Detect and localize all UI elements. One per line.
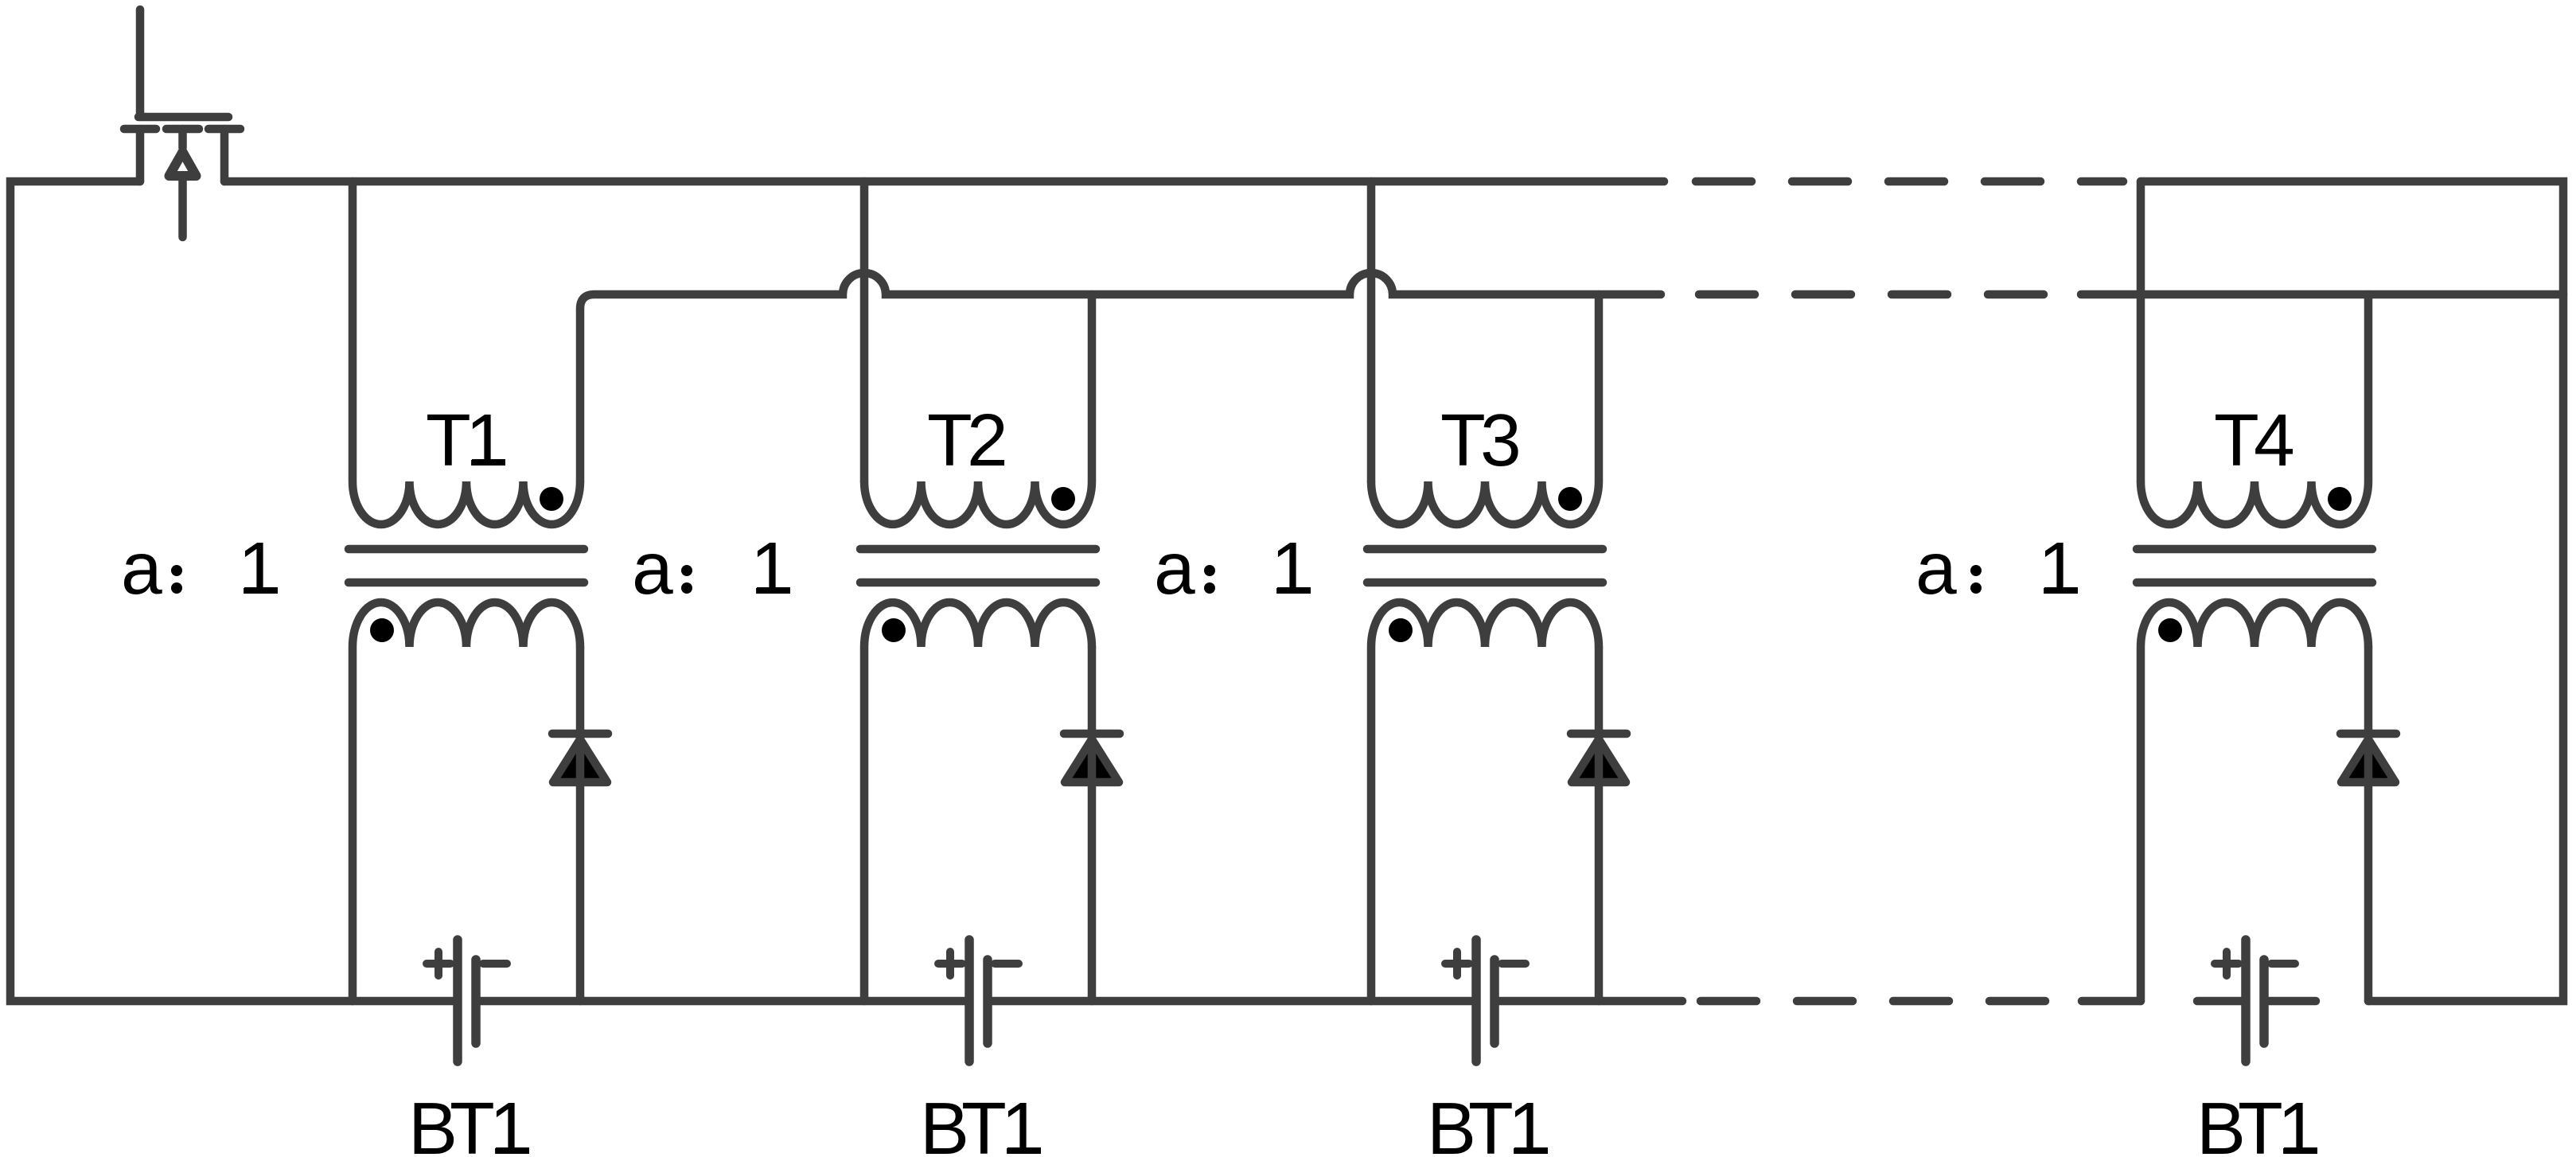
svg-text:T: T	[927, 399, 972, 481]
transformer T3 primary lead from top wire	[1367, 181, 1376, 481]
svg-text:T: T	[1440, 399, 1486, 481]
svg-text:3: 3	[1480, 399, 1522, 481]
svg-text:1: 1	[2038, 527, 2079, 610]
transistor Q1 drain lead	[136, 129, 145, 181]
node dot T2 primary polarity	[1051, 487, 1075, 511]
svg-text:1: 1	[1001, 1087, 1042, 1157]
battery BT1-2 minus sign	[995, 960, 1019, 968]
node dot T1 secondary polarity	[370, 618, 394, 642]
battery BT1-2 positive plate	[965, 940, 974, 1062]
diode D1 cathode bar	[552, 730, 608, 738]
wire top middle segment	[224, 177, 1664, 186]
svg-text:4: 4	[2254, 399, 2295, 481]
label T4	[2214, 399, 2295, 481]
label a:1 for T4	[1915, 527, 2079, 610]
transformer T3 primary winding	[1371, 294, 1599, 524]
svg-text:2: 2	[967, 399, 1008, 481]
wire top right segment, right edge and bottom right corner	[2141, 181, 2563, 1001]
svg-text:T: T	[1468, 1087, 1514, 1157]
battery BT1-3 positive plate	[1471, 940, 1481, 1062]
transformer T3 core	[1367, 549, 1603, 582]
transistor Q1 channel dash 2	[166, 125, 199, 134]
transformer T1 secondary winding	[353, 602, 580, 1001]
battery BT1-3 negative plate	[1490, 960, 1499, 1043]
svg-text:T: T	[450, 1087, 495, 1157]
wire bottom segment T2 to T3 battery	[988, 997, 1476, 1006]
svg-text:a: a	[1915, 527, 1957, 610]
battery BT1-1 plus sign	[427, 952, 450, 976]
svg-text:T: T	[961, 1087, 1007, 1157]
diode D3 lead	[1595, 647, 1604, 1001]
label a:1 for T3	[1154, 527, 1312, 610]
label BT1 cell 2	[920, 1087, 1042, 1157]
battery BT1-4 positive plate	[2241, 940, 2251, 1062]
wire bottom stub into T4 secondary corner	[2082, 997, 2141, 1006]
diode D4 cathode bar	[2340, 730, 2396, 738]
label a:1 for T1	[121, 527, 279, 610]
diode D2 triangle	[1065, 739, 1119, 782]
node dot T4 primary polarity	[2328, 487, 2352, 511]
transformer T2 core	[860, 549, 1096, 582]
diode D4 triangle	[2341, 739, 2395, 782]
node dot T4 secondary polarity	[2158, 618, 2182, 642]
svg-text:1: 1	[1271, 527, 1312, 610]
node dot T3 secondary polarity	[1389, 618, 1413, 642]
svg-text:a: a	[121, 527, 162, 610]
diode D3 triangle	[1572, 739, 1626, 782]
transformer T4 secondary winding	[2141, 602, 2368, 1001]
battery BT1-3 minus sign	[1502, 960, 1526, 968]
wire bottom segment T1 to T2 battery	[476, 997, 969, 1006]
svg-text:1: 1	[489, 1087, 531, 1157]
wire bottom dashed segment	[1701, 997, 2045, 1006]
wire bottom segment T3 battery to dash start	[1495, 997, 1682, 1006]
wire bottom segment after T4 battery	[2264, 997, 2316, 1006]
transistor Q1 gate lead	[136, 10, 145, 114]
transformer T4 primary winding	[2141, 294, 2368, 524]
battery BT1-3 plus sign	[1445, 952, 1469, 976]
diode D1 triangle	[553, 739, 607, 782]
diode D1 lead	[576, 647, 585, 1001]
label BT1 cell 4	[2196, 1087, 2319, 1157]
battery BT1-4 plus sign	[2215, 952, 2239, 976]
wire top left segment, left edge and bottom left segment	[10, 181, 458, 1001]
label T3	[1440, 399, 1522, 481]
battery BT1-2 negative plate	[983, 960, 992, 1043]
transistor Q1 source lead	[220, 129, 229, 181]
node dot T3 primary polarity	[1558, 487, 1582, 511]
transistor Q1 body arrow tail	[178, 177, 187, 237]
svg-text:1: 1	[750, 527, 792, 610]
battery BT1-1 minus sign	[483, 960, 507, 968]
transistor Q1 body arrow head	[170, 152, 197, 176]
label BT1 cell 1	[408, 1087, 531, 1157]
wire secondary bus dashed segment	[1699, 290, 2044, 299]
battery BT1-2 plus sign	[938, 952, 962, 976]
transformer T4 primary lead from top wire	[2137, 181, 2145, 481]
digit 1 foot serifs (SimHei-style)	[244, 462, 2317, 1151]
battery BT1-1 negative plate	[471, 960, 481, 1043]
svg-text:1: 1	[1508, 1087, 1549, 1157]
node dot T2 secondary polarity	[882, 618, 906, 642]
transformer T2 primary winding	[864, 294, 1092, 524]
node dot T1 primary polarity	[540, 487, 563, 511]
transistor Q1 body stub	[178, 129, 187, 148]
diode D4 lead	[2364, 647, 2373, 1001]
label a:1 for T2	[632, 527, 792, 610]
svg-text:T: T	[2238, 1087, 2283, 1157]
svg-text:T: T	[426, 399, 471, 481]
transistor Q1 channel dash 1	[124, 125, 156, 134]
battery BT1-1 positive plate	[453, 940, 462, 1062]
battery BT1-4 minus sign	[2271, 960, 2295, 968]
svg-text:1: 1	[466, 399, 507, 481]
svg-text:a: a	[632, 527, 673, 610]
wire secondary bus right segment	[2081, 290, 2563, 299]
svg-text:T: T	[2214, 399, 2259, 481]
svg-text:a: a	[1154, 527, 1195, 610]
transformer T2 secondary winding	[864, 602, 1092, 1001]
transistor Q1 channel dash 3	[208, 125, 240, 134]
label T1	[426, 399, 507, 481]
transformer T4 core	[2137, 549, 2372, 582]
wire top dashed segment	[1696, 177, 2123, 186]
svg-text:1: 1	[238, 527, 279, 610]
wire bottom stub into T4 battery	[2197, 997, 2246, 1006]
svg-text:1: 1	[2278, 1087, 2319, 1157]
transistor Q1 gate bar	[138, 113, 228, 122]
diode D2 lead	[1088, 647, 1097, 1001]
wire secondary bus from T1 with hops over T2 and T3 leads	[580, 273, 1661, 481]
diode D2 cathode bar	[1064, 730, 1120, 738]
transformer T2 primary lead from top wire	[860, 181, 869, 481]
label BT1 cell 3	[1427, 1087, 1549, 1157]
label T2	[927, 399, 1008, 481]
battery BT1-4 negative plate	[2259, 960, 2269, 1043]
transformer T1 primary winding	[353, 181, 580, 524]
diode D3 cathode bar	[1571, 730, 1627, 738]
transformer T3 secondary winding	[1371, 602, 1599, 1001]
transformer T1 core	[349, 549, 584, 582]
